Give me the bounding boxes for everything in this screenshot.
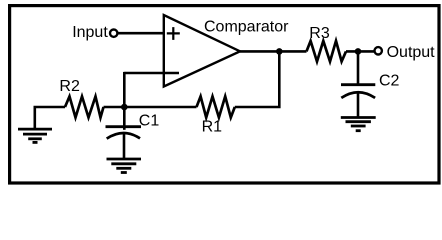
svg-text:C2: C2 [379, 73, 400, 90]
svg-text:R1: R1 [202, 118, 223, 135]
svg-text:Comparator: Comparator [204, 19, 289, 36]
svg-text:Input: Input [72, 24, 108, 41]
svg-text:Output: Output [387, 44, 436, 61]
svg-text:R3: R3 [309, 25, 330, 42]
svg-text:C1: C1 [139, 113, 160, 130]
svg-text:R2: R2 [59, 78, 80, 95]
